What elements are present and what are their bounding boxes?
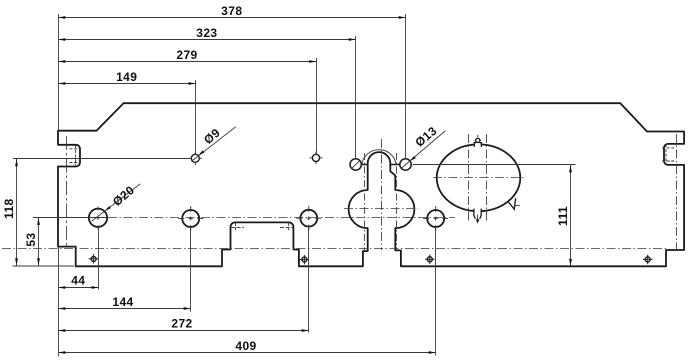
- centre cross hole d: [423, 206, 448, 231]
- keyhole thin outer arc: [362, 150, 397, 165]
- keyhole connector left: [361, 164, 367, 166]
- centerline oval vertical left: [468, 134, 470, 223]
- extension line hole 9b: [316, 58, 318, 155]
- dimension 272: [59, 330, 309, 332]
- keyhole connector right: [390, 164, 400, 166]
- oval bottom tab: [474, 208, 481, 222]
- centerline left flange: [66, 136, 68, 246]
- extension line left vertical: [58, 14, 60, 131]
- weld point mark 3: [425, 255, 435, 265]
- corner centre mark bump right: [280, 223, 293, 232]
- hole row b: [182, 210, 199, 227]
- centerline slot vertical: [381, 139, 383, 250]
- centre cross hole 9a: [189, 152, 203, 166]
- extension line D13 right: [405, 14, 407, 159]
- centerline slot side right: [396, 153, 398, 251]
- leader D13: [402, 131, 446, 168]
- leader D9: [191, 127, 236, 162]
- svg-text:378: 378: [221, 4, 242, 18]
- extension line D13 left: [355, 36, 357, 159]
- centerline slot side left: [364, 153, 366, 251]
- corner centre mark right tab: [662, 144, 675, 164]
- extension line hole d down: [435, 227, 437, 355]
- centerline horizontal main bottom: [2, 248, 666, 250]
- dimension 409: [59, 352, 436, 354]
- dimension 111: [570, 165, 572, 266]
- svg-text:53: 53: [24, 233, 38, 247]
- svg-text:279: 279: [176, 48, 197, 62]
- svg-text:111: 111: [556, 206, 570, 226]
- centre cross hole c: [296, 206, 321, 231]
- centerline oval horizontal: [433, 177, 525, 179]
- svg-text:144: 144: [112, 295, 133, 309]
- centerline oval vertical right: [486, 134, 488, 223]
- corner centre mark left tab: [70, 145, 81, 166]
- centerline lobes: [344, 208, 418, 210]
- hole row d: [427, 210, 444, 227]
- svg-text:409: 409: [235, 339, 256, 353]
- hole 9 top b: [312, 154, 319, 161]
- svg-text:149: 149: [116, 70, 137, 84]
- hole 9 top a: [191, 154, 199, 162]
- hole D13 left: [350, 159, 361, 170]
- dimension 279: [59, 61, 317, 63]
- hole row c: [300, 210, 317, 227]
- extension line hole 20 down: [98, 227, 100, 290]
- leader D20: [92, 184, 141, 221]
- extension line 111 top: [413, 164, 576, 166]
- oval top tab: [474, 142, 481, 148]
- corner centre mark bump left: [231, 223, 244, 232]
- oval right tab: [507, 198, 516, 209]
- svg-text:118: 118: [2, 198, 16, 219]
- hole 20 left: [89, 209, 107, 227]
- big oval opening: [437, 144, 521, 211]
- part outline: [58, 103, 684, 266]
- extension line hole 9a: [195, 80, 197, 154]
- extension line hole b down: [190, 227, 192, 311]
- centre cross hole 20: [96, 207, 100, 230]
- dimension 53: [38, 218, 40, 266]
- dimension 118: [16, 159, 18, 266]
- extension line 118 top: [13, 158, 191, 160]
- dimension 149: [59, 83, 196, 85]
- weld point mark 1: [89, 254, 99, 264]
- dimension 144: [59, 308, 191, 310]
- dimension 378: [59, 17, 406, 19]
- svg-text:323: 323: [196, 26, 217, 40]
- svg-text:272: 272: [171, 316, 192, 330]
- svg-text:44: 44: [71, 273, 85, 287]
- extension line 118 bottom: [13, 265, 75, 267]
- centre cross hole 9b: [310, 152, 323, 165]
- weld point mark 2: [300, 255, 310, 265]
- hole D13 right: [400, 159, 411, 170]
- dimension 323: [59, 39, 356, 41]
- centerline hole row: [33, 217, 108, 219]
- dimension 44: [59, 287, 99, 289]
- extension line hole c down: [308, 227, 310, 333]
- centerline right flange: [676, 134, 678, 249]
- weld point mark 4: [643, 255, 653, 265]
- centre cross hole b: [178, 206, 203, 231]
